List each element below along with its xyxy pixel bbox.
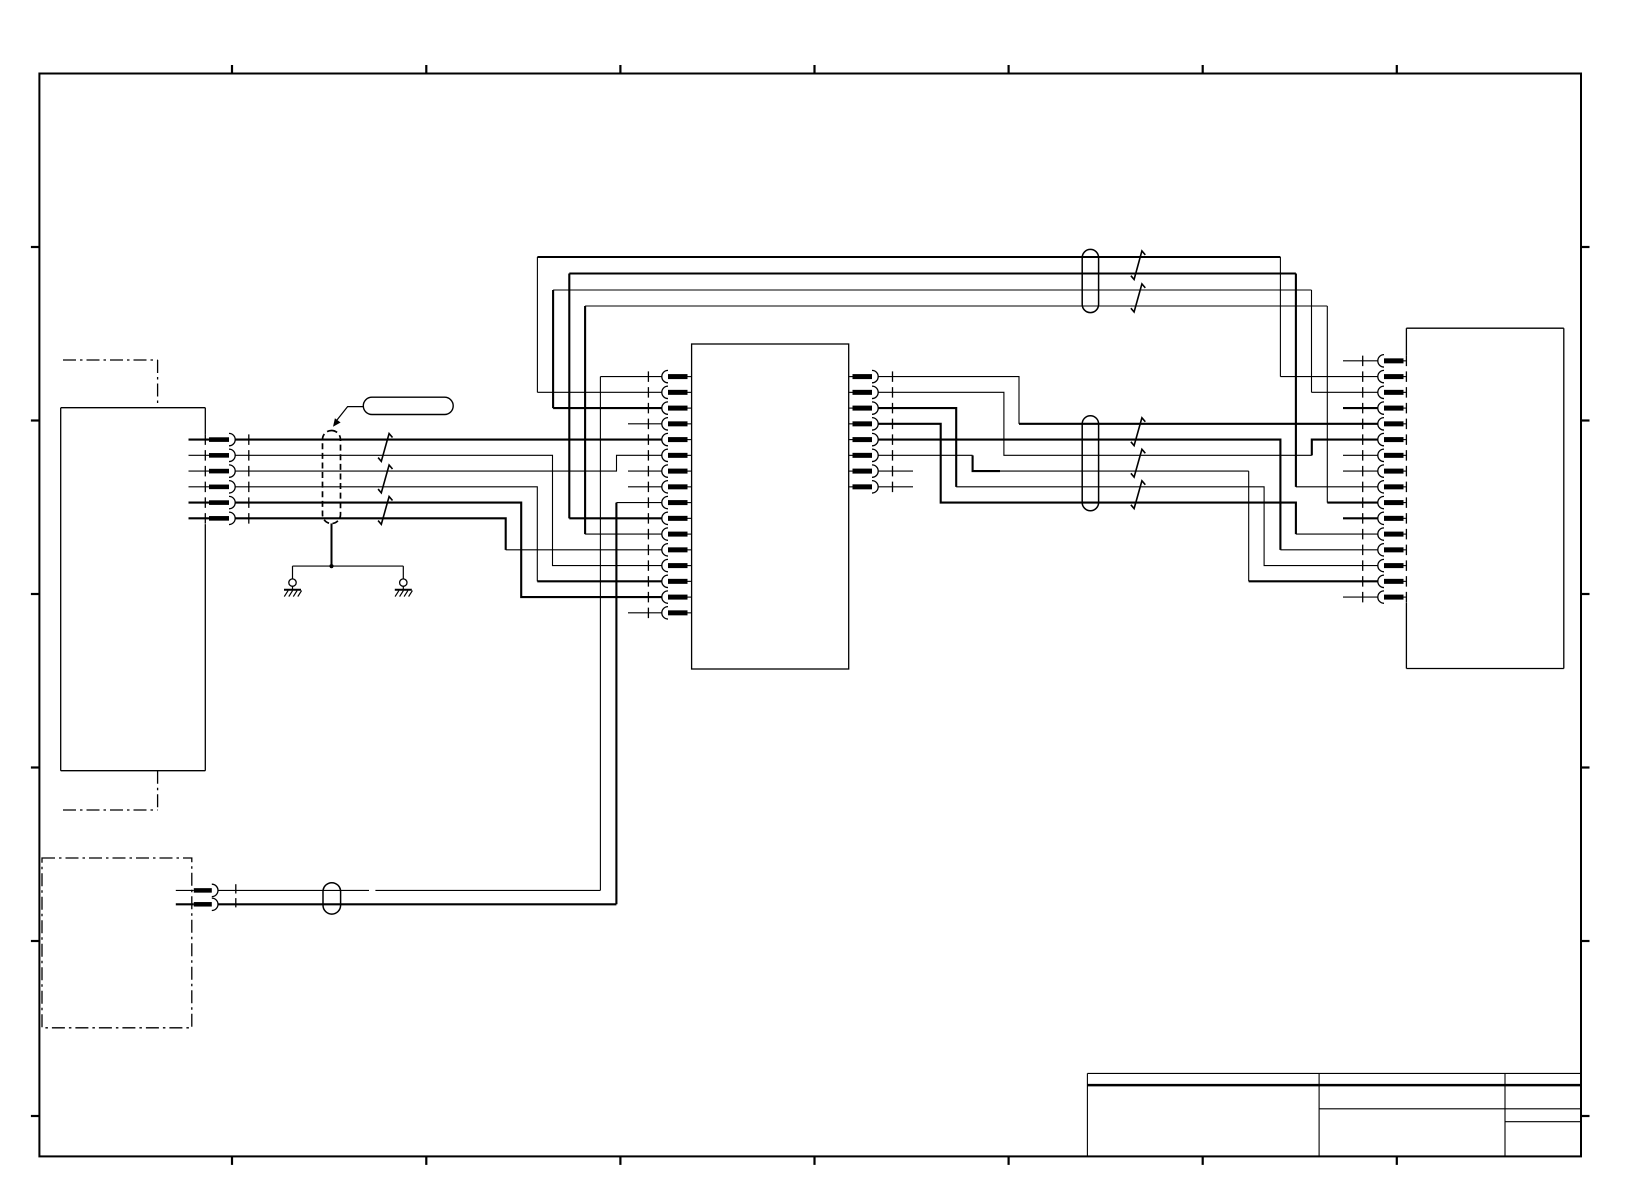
bottom option block outline (dash-dot) bbox=[42, 858, 192, 1028]
slash mark A/B pair bbox=[1131, 251, 1145, 280]
U1 right pin 2 bbox=[853, 390, 873, 395]
connector CN1 pin 4 bbox=[189, 486, 210, 488]
cable shield W4 (bottom oval) bbox=[323, 883, 341, 914]
CN3 pin 13 bbox=[1384, 547, 1404, 552]
U1 right pin 1 bbox=[853, 374, 873, 379]
CN3 pin 15 bbox=[1384, 579, 1404, 584]
wire C: top bus to U1 p3 / CN3 r3 bbox=[553, 289, 1311, 291]
ground symbol right bbox=[402, 566, 404, 579]
CN3 r4 stub lead bbox=[1343, 407, 1378, 409]
U1 left pin 7 bbox=[668, 469, 688, 474]
slash mark w5/w6 pair bbox=[378, 497, 392, 525]
wire b2: bottom pin2 to U1 p9 bbox=[218, 903, 616, 905]
connector CN1 mating boundary (dashed) bbox=[248, 434, 250, 524]
U1 left pin 3 bbox=[668, 406, 688, 411]
CN3 r1 stub lead bbox=[1343, 360, 1378, 362]
U1 left pin 13 bbox=[668, 563, 688, 568]
CN3 pin 1 bbox=[1384, 358, 1404, 363]
wire B: top bus to U1 p10 / CN3 r9 bbox=[569, 272, 1296, 274]
U1 left pin 5 bbox=[668, 437, 688, 442]
connector CN1 pin 5 bbox=[189, 502, 210, 504]
U1 right pin 8 bbox=[853, 484, 873, 489]
cable shield W2 (top bus oval) bbox=[1082, 249, 1098, 312]
CN3 pin 6 bbox=[1384, 437, 1404, 442]
CN3 pin 9 bbox=[1384, 484, 1404, 489]
U1 left pin 12 bbox=[668, 547, 688, 552]
CN3 pin 5 bbox=[1384, 421, 1404, 426]
CN3 r11 stub lead bbox=[1343, 517, 1378, 519]
wire w5: CN1-5 to U1 p15 bbox=[235, 503, 662, 597]
wire q1: U1 q1 to CN3 r5 bbox=[878, 377, 1019, 424]
slash mark q3/q4 pair bbox=[1131, 481, 1145, 509]
left board dash-dot extension top bbox=[63, 359, 158, 361]
U1 left pin 1 bbox=[668, 374, 688, 379]
CN3 pin 10 bbox=[1384, 500, 1404, 505]
connector CN1 pin 3 bbox=[189, 470, 210, 472]
shield drain wire bbox=[331, 524, 333, 567]
title block bbox=[1087, 1072, 1581, 1074]
wire w2: CN1-2 to U1 p13 bbox=[235, 455, 662, 565]
CN3 pin 4 bbox=[1384, 406, 1404, 411]
wire q5: U1 q5 to CN3 r13 bbox=[878, 440, 1280, 550]
CN3 pin 3 bbox=[1384, 390, 1404, 395]
CN3 pin 2 bbox=[1384, 374, 1404, 379]
U1 left pin 14 bbox=[668, 579, 688, 584]
U1 left pin 15 bbox=[668, 595, 688, 600]
slash mark q2/q6 pair bbox=[1131, 449, 1145, 477]
slash mark w1/w2 pair bbox=[378, 434, 392, 462]
slash mark q1/q5 pair bbox=[1131, 418, 1145, 446]
U1 q8 stub lead bbox=[878, 486, 913, 488]
CN3 r7 stub lead bbox=[1343, 454, 1378, 456]
wire q6: U1 q6 to CN3 r15 bbox=[878, 454, 972, 456]
CN3 mating boundary (dashed) bbox=[1362, 356, 1364, 603]
U1 p8 stub lead bbox=[628, 486, 662, 488]
slash mark C/D pair bbox=[1131, 284, 1145, 312]
U1 right pin 4 bbox=[853, 421, 873, 426]
ground symbol left bbox=[292, 566, 294, 579]
U1 right pin 3 bbox=[853, 406, 873, 411]
left board block outline bbox=[61, 407, 206, 409]
wire q3: U1 q3 to CN3 r14 bbox=[878, 408, 956, 487]
CN3 pin 11 bbox=[1384, 516, 1404, 521]
U1 left pin 8 bbox=[668, 484, 688, 489]
U1 p4 stub lead bbox=[628, 423, 662, 425]
cable shield W1 (dashed oval) bbox=[323, 431, 341, 524]
U1 left connector boundary (dashed) bbox=[647, 371, 649, 618]
CN3 r8 stub lead bbox=[1343, 470, 1378, 472]
CN3 pin 8 bbox=[1384, 469, 1404, 474]
U1 left pin 6 bbox=[668, 453, 688, 458]
U1 left pin 10 bbox=[668, 516, 688, 521]
wire b1: bottom pin1 to U1 p1 bbox=[218, 889, 369, 891]
U1 right pin 7 bbox=[853, 469, 873, 474]
wire w3: CN1-3 to U1 p6 bbox=[235, 455, 662, 471]
wire D: top bus to U1 p11 / CN3 r10 bbox=[585, 305, 1327, 307]
CN3 pin 7 bbox=[1384, 453, 1404, 458]
bottom block mating boundary (dashed) bbox=[235, 884, 237, 911]
ground rail wire bbox=[293, 565, 404, 567]
U1 left pin 11 bbox=[668, 532, 688, 537]
wire q4: U1 q4 to CN3 r12 bbox=[878, 424, 1296, 534]
bottom block pin 1 bbox=[176, 889, 194, 891]
converter block U1 bbox=[692, 344, 849, 669]
CN3 pin 12 bbox=[1384, 532, 1404, 537]
callout balloon (shield label) bbox=[363, 397, 453, 414]
connector CN1 pin 1 bbox=[189, 439, 210, 441]
bottom block pin 2 bbox=[176, 903, 194, 905]
U1 right pin 6 bbox=[853, 453, 873, 458]
CN3 r16 stub lead bbox=[1343, 596, 1378, 598]
wire A: top bus to U1 p2 / CN3 r2 bbox=[537, 256, 1280, 258]
right board block CN3 bbox=[1406, 327, 1563, 329]
slash mark w3/w4 pair bbox=[378, 465, 392, 493]
wire w4: CN1-4 to U1 p14 bbox=[235, 487, 537, 581]
U1 left pin 9 bbox=[668, 500, 688, 505]
U1 right pin 5 bbox=[853, 437, 873, 442]
U1 q7 stub lead bbox=[878, 470, 913, 472]
connector CN1 pin 2 bbox=[189, 454, 210, 456]
U1 p16 stub lead bbox=[628, 612, 662, 614]
U1 right connector boundary (dashed) bbox=[892, 371, 894, 492]
wire w6: CN1-6 to U1 p12 bbox=[235, 518, 506, 550]
CN3 pin 16 bbox=[1384, 595, 1404, 600]
U1 left pin 2 bbox=[668, 390, 688, 395]
CN3 pin 14 bbox=[1384, 563, 1404, 568]
U1 left pin 16 bbox=[668, 610, 688, 615]
junction bbox=[329, 564, 333, 568]
U1 left pin 4 bbox=[668, 421, 688, 426]
connector CN1 pin 6 bbox=[189, 517, 210, 519]
U1 p7 stub lead bbox=[628, 470, 662, 472]
callout leader arrow bbox=[336, 407, 363, 421]
cable shield W3 (mid bus oval) bbox=[1082, 416, 1098, 511]
wire w1: CN1-1 to U1 p5 bbox=[235, 439, 662, 441]
wire q2: U1 q2 to CN3 r6 bbox=[878, 392, 1312, 455]
left board dash-dot extension bottom bbox=[157, 771, 159, 810]
